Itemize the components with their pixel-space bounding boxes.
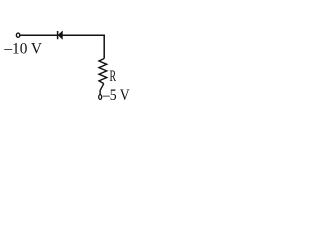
terminal node -5 V bbox=[99, 95, 102, 100]
diode (cathode bar at left) bbox=[58, 31, 63, 39]
resistor R (zigzag) bbox=[99, 59, 107, 84]
wire from diode anode to top-right corner bbox=[62, 34, 105, 36]
svg-text:–5 V: –5 V bbox=[102, 86, 130, 104]
wire from -10 V terminal to diode cathode bbox=[20, 34, 58, 36]
terminal node -10 V bbox=[16, 33, 19, 37]
svg-text:–10 V: –10 V bbox=[3, 40, 42, 58]
wire: right vertical segment down to resistor bbox=[103, 35, 105, 59]
wire from resistor bottom to -5 V terminal bbox=[100, 84, 104, 95]
svg-text:R: R bbox=[110, 66, 117, 85]
